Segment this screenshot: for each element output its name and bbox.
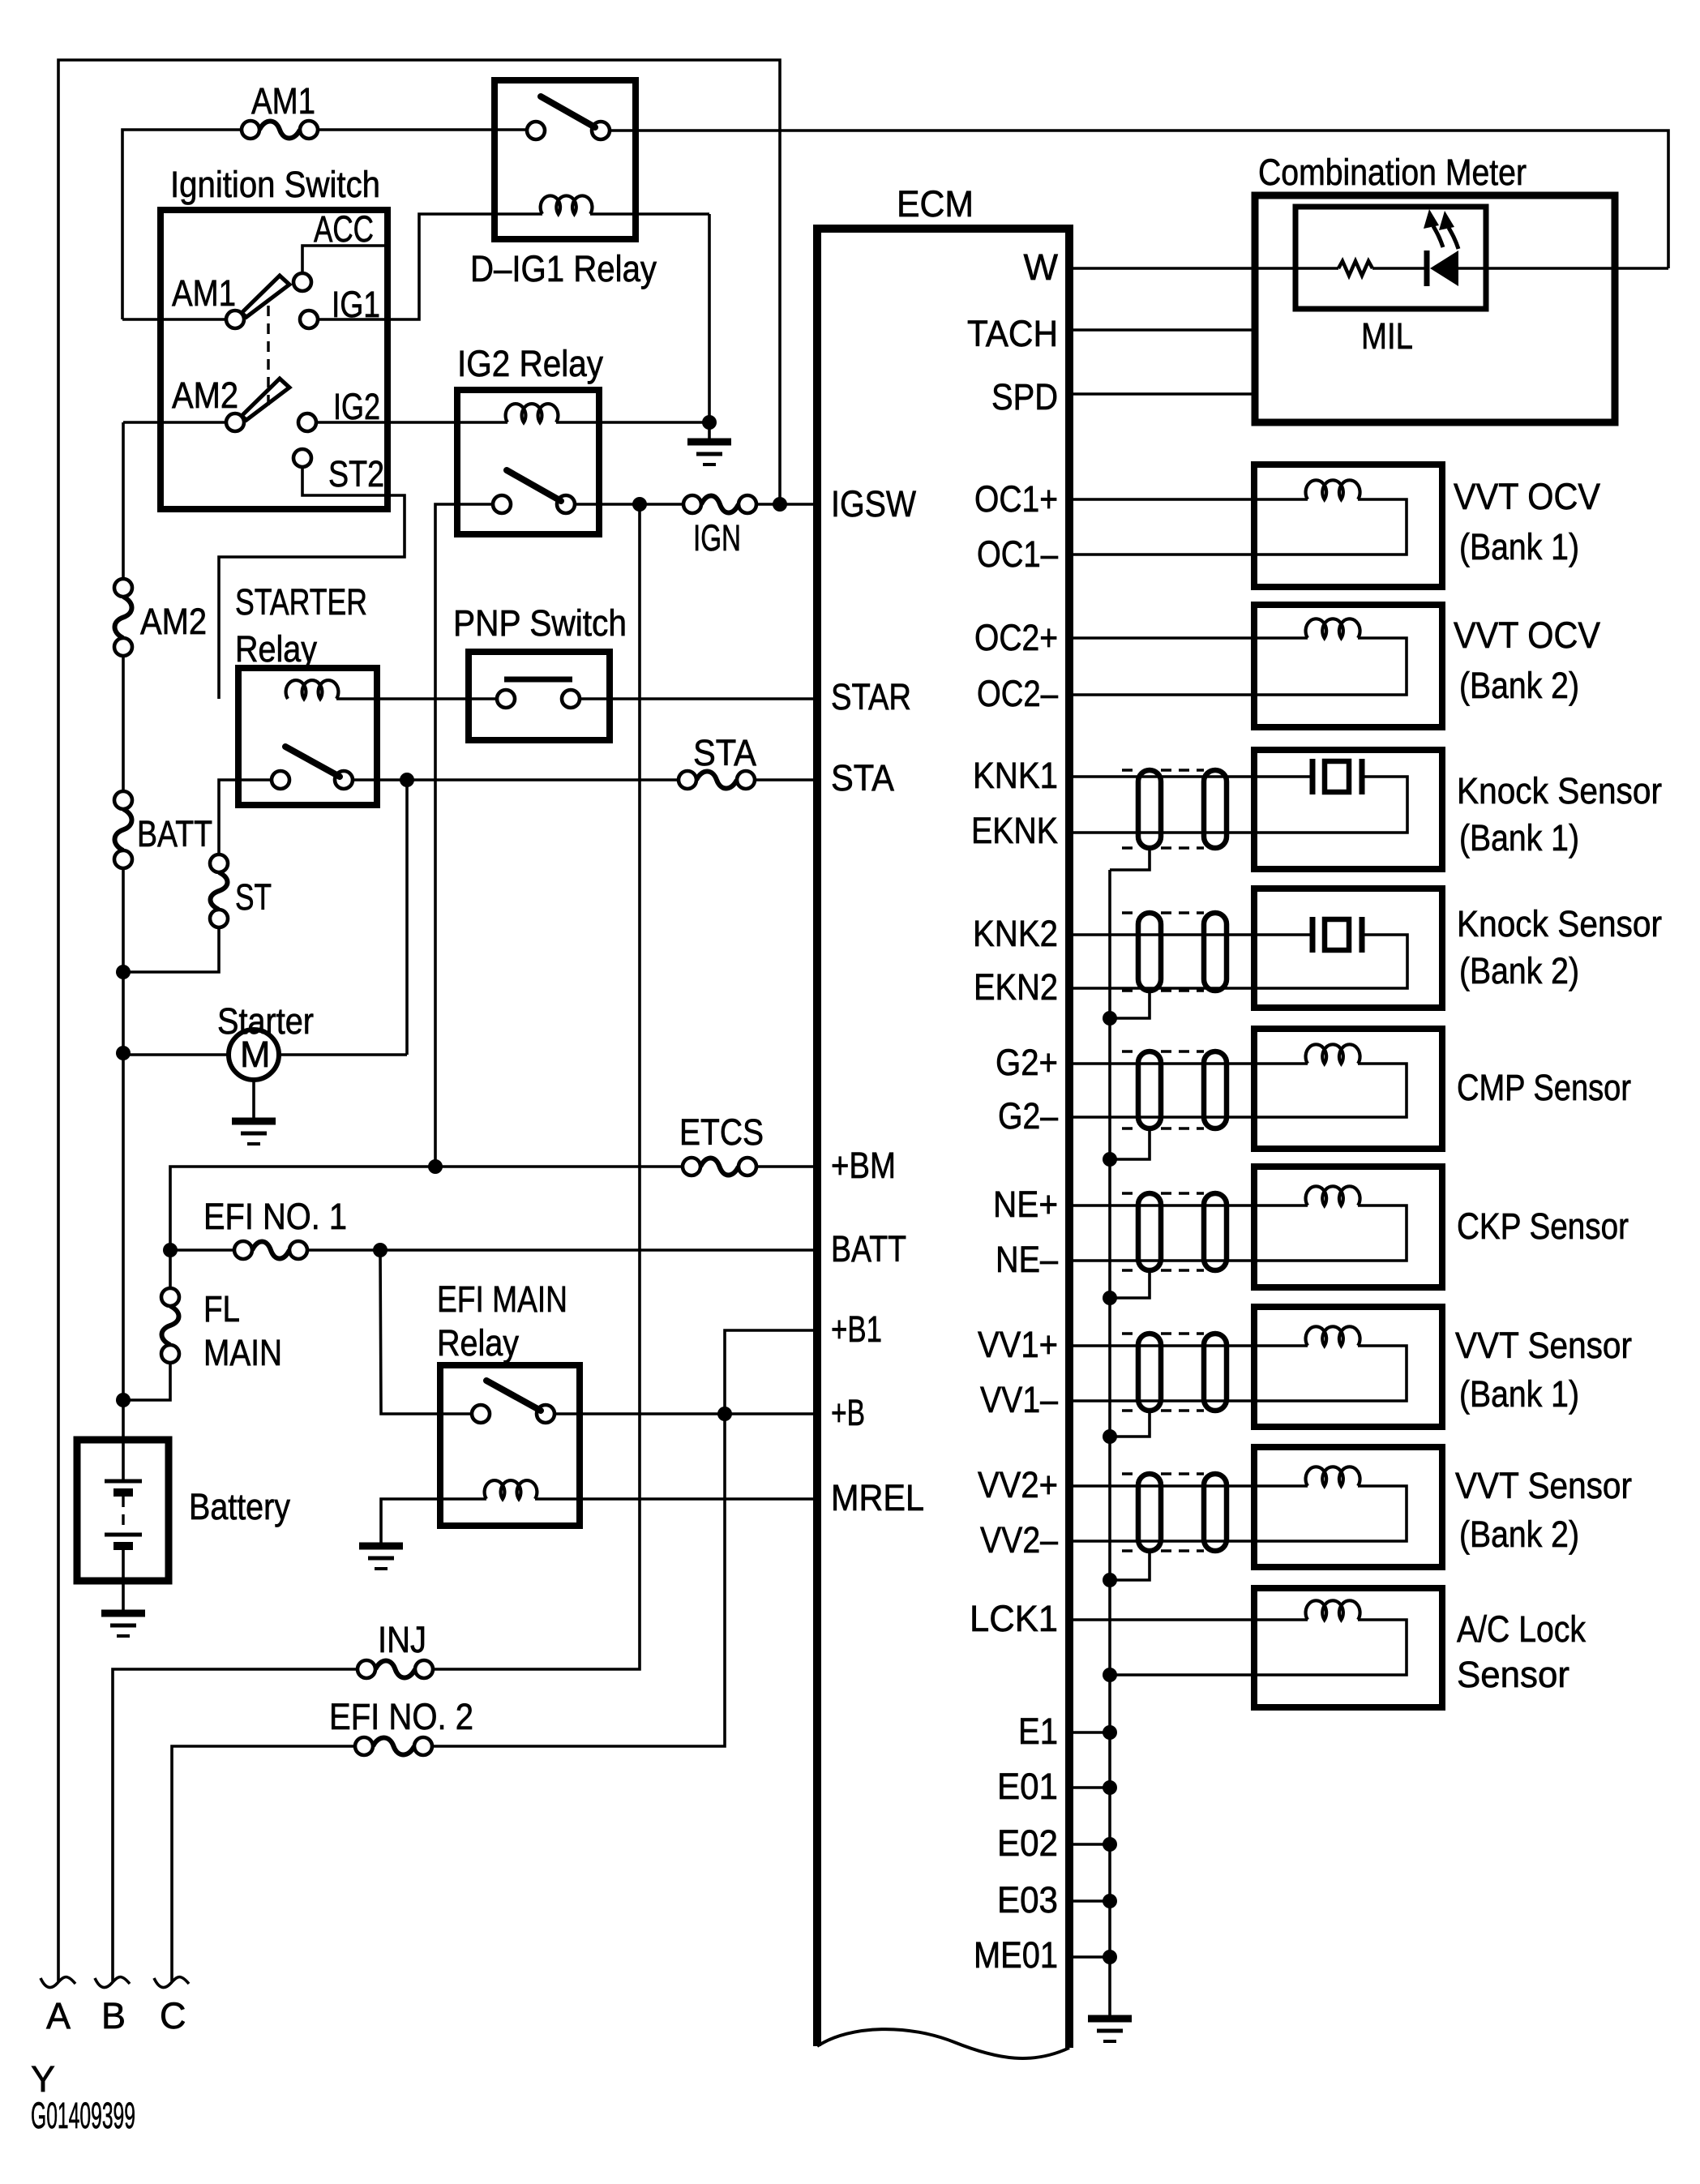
svg-text:IGSW: IGSW: [831, 483, 916, 525]
wire CMP Sensor internal return: [1069, 1064, 1407, 1117]
label (Bank 2): [1459, 665, 1579, 706]
battery cells: [105, 1442, 142, 1612]
wire D-IG1 coil to ground riser: [590, 212, 709, 216]
box VVT OCV Bank1: [1254, 465, 1442, 587]
junction shield drain VV2: [1103, 1573, 1117, 1587]
pin label NE–: [996, 1239, 1058, 1280]
terminal IG2: [298, 413, 316, 431]
svg-text:OC1–: OC1–: [977, 533, 1058, 575]
wire AM2 terminal feed: [123, 421, 226, 424]
svg-text:KNK1: KNK1: [973, 755, 1058, 796]
pin label MREL: [831, 1477, 924, 1518]
pin label E03: [997, 1879, 1058, 1921]
wire shield drain NE: [1110, 1270, 1150, 1298]
label MIL: [1361, 315, 1413, 357]
pin label EKN2: [974, 966, 1058, 1008]
wire W to MIL resistor: [1069, 267, 1338, 270]
wire ME01 to ground bus: [1069, 1955, 1110, 1959]
svg-text:Y: Y: [31, 2058, 55, 2100]
svg-text:BATT: BATT: [831, 1228, 906, 1270]
pin label +B: [831, 1392, 865, 1433]
wire VVT Sensor Bank2 internal return: [1069, 1486, 1407, 1541]
svg-text:EKN2: EKN2: [974, 966, 1058, 1008]
wire VVT OCV Bank2 + lead: [1069, 636, 1308, 640]
wire Knock Sensor Bank1 return: [1069, 777, 1407, 833]
label Knock Sensor: [1457, 770, 1662, 812]
wire EFI NO.1 left stub: [170, 1248, 234, 1252]
svg-text:Relay: Relay: [235, 628, 317, 670]
svg-text:OC2–: OC2–: [977, 673, 1058, 714]
wire shield drain KNK2: [1110, 991, 1150, 1018]
ECM box: [817, 229, 1069, 2058]
svg-text:(Bank 1): (Bank 1): [1459, 1373, 1579, 1415]
wire STARTER contact left to ST fuse: [219, 780, 272, 854]
break symbol net C: [154, 1977, 189, 1988]
pin label LCK1: [970, 1598, 1058, 1639]
coil VVT OCV Bank1: [1306, 480, 1360, 499]
pin label STAR: [831, 676, 911, 717]
svg-text:KNK2: KNK2: [973, 913, 1058, 954]
label AM2 fuse: [140, 601, 207, 642]
svg-text:MAIN: MAIN: [203, 1332, 282, 1373]
junction E02: [1103, 1837, 1117, 1852]
label ECM: [897, 183, 974, 225]
label ACC: [314, 208, 374, 250]
coil CMP Sensor: [1306, 1044, 1360, 1064]
box Knock Sensor Bank2: [1254, 889, 1442, 1008]
pin label KNK1: [973, 755, 1058, 796]
crystal Knock Sensor Bank2: [1312, 917, 1362, 953]
terminal AM2: [226, 413, 244, 431]
svg-text:NE–: NE–: [996, 1239, 1058, 1280]
svg-text:ECM: ECM: [897, 183, 974, 225]
pin label STA: [831, 757, 894, 799]
label VVT Sensor: [1455, 1465, 1632, 1506]
svg-text:EFI NO. 1: EFI NO. 1: [203, 1196, 347, 1237]
label IG2: [333, 386, 380, 427]
svg-text:D–IG1 Relay: D–IG1 Relay: [470, 248, 657, 289]
label EFI NO. 1: [203, 1196, 347, 1237]
pin label BATT: [831, 1228, 906, 1270]
ground starter motor: [232, 1121, 276, 1144]
box VVT OCV Bank2: [1254, 605, 1442, 727]
pin label VV1–: [980, 1379, 1058, 1420]
box CKP Sensor: [1254, 1167, 1442, 1287]
label ST2: [328, 453, 384, 495]
svg-text:OC1+: OC1+: [974, 478, 1058, 520]
svg-text:+B1: +B1: [831, 1308, 882, 1350]
terminal AM1: [226, 310, 244, 328]
wire D-IG1 contact to MIL return (top right run): [610, 131, 1668, 268]
pin label W: [1024, 246, 1059, 288]
label BATT fuse: [137, 813, 212, 854]
fuse ETCS: [683, 1158, 756, 1176]
resistor MIL: [1338, 261, 1372, 276]
wire PNP switch to ECM STAR: [580, 697, 817, 700]
relay IG2 contact: [493, 470, 575, 513]
break symbol net A bottom: [41, 1977, 75, 1988]
wire +BM line with corner: [170, 1167, 683, 1250]
coil VVT Sensor Bank2: [1306, 1467, 1360, 1486]
label VVT Sensor: [1455, 1325, 1632, 1366]
svg-text:EKNK: EKNK: [971, 810, 1058, 851]
pin label SPD: [991, 376, 1058, 418]
wire IG2 coil to ground junction: [556, 421, 709, 424]
svg-text:BATT: BATT: [137, 813, 212, 854]
svg-text:W: W: [1024, 246, 1059, 288]
relay IG2 coil: [506, 404, 559, 422]
label ST fuse: [235, 876, 272, 918]
wire E01 to ground bus: [1069, 1786, 1110, 1789]
wire AM1 fuse feed from left riser: [122, 130, 242, 319]
wire TACH to meter: [1069, 328, 1255, 332]
svg-text:VV2–: VV2–: [980, 1519, 1058, 1561]
dashed gang tie between blades: [267, 306, 269, 412]
fuse ST: [210, 854, 228, 927]
label Y: [31, 2058, 55, 2100]
svg-text:Relay: Relay: [437, 1322, 519, 1364]
svg-text:VVT OCV: VVT OCV: [1454, 476, 1600, 517]
wire STA branch down to starter motor: [405, 780, 409, 1055]
terminal ST2: [293, 449, 311, 467]
svg-text:VVT Sensor: VVT Sensor: [1455, 1465, 1632, 1506]
svg-text:Knock Sensor: Knock Sensor: [1457, 903, 1662, 944]
label STA fuse: [693, 732, 756, 773]
junction IGN right / net A drop: [773, 497, 787, 512]
wire A/C Lock Sensor + lead: [1069, 1618, 1308, 1621]
svg-text:AM2: AM2: [172, 375, 238, 416]
wire IGN drop to INJ line (net B): [433, 504, 640, 1669]
label Combination Meter: [1258, 152, 1527, 193]
label IG2 Relay: [457, 343, 603, 384]
junction EFI NO.1 left: [163, 1243, 178, 1257]
wire VVT OCV Bank1 + lead: [1069, 498, 1308, 501]
wire IG2 terminal to IG2 relay coil: [316, 421, 507, 424]
relay EFI MAIN contact: [472, 1381, 555, 1423]
wire A/C Lock Sensor internal return: [1110, 1620, 1407, 1675]
pin label KNK2: [973, 913, 1058, 954]
svg-text:VVT OCV: VVT OCV: [1454, 615, 1600, 656]
junction starter feed: [116, 1046, 131, 1060]
pin label G2+: [996, 1042, 1058, 1083]
label (Bank 1): [1459, 526, 1579, 567]
label G01409399: [31, 2095, 135, 2136]
wire CMP Sensor + lead: [1069, 1062, 1308, 1065]
svg-text:(Bank 2): (Bank 2): [1459, 1514, 1579, 1555]
svg-text:EFI MAIN: EFI MAIN: [437, 1278, 567, 1320]
svg-text:MREL: MREL: [831, 1477, 924, 1518]
pin label OC1+: [974, 478, 1058, 520]
svg-text:(Bank 2): (Bank 2): [1459, 950, 1579, 991]
svg-text:Knock Sensor: Knock Sensor: [1457, 770, 1662, 812]
junction shield drain KNK2: [1103, 1011, 1117, 1026]
svg-text:AM1: AM1: [172, 272, 236, 314]
wire starter motor ground stub: [252, 1080, 255, 1121]
junction shield drain VV1: [1103, 1429, 1117, 1444]
relay STARTER box: [238, 668, 377, 805]
svg-text:ME01: ME01: [974, 1934, 1058, 1976]
switch blade AM1: [242, 276, 289, 317]
PNP switch contacts and bar: [497, 679, 580, 708]
wire ST fuse to left riser: [123, 927, 219, 972]
svg-text:+B: +B: [831, 1392, 865, 1433]
label ETCS: [679, 1111, 764, 1153]
node label B: [101, 1995, 126, 2036]
relay D-IG1 contact: [527, 96, 610, 139]
coil VVT OCV Bank2: [1306, 619, 1360, 638]
box A/C Lock Sensor: [1254, 1588, 1442, 1707]
pin label VV2–: [980, 1519, 1058, 1561]
label VVT OCV: [1454, 615, 1600, 656]
svg-text:LCK1: LCK1: [970, 1598, 1058, 1639]
shield capsule pair VV1: [1122, 1334, 1227, 1411]
coil A/C Lock Sensor: [1306, 1600, 1360, 1620]
wire shield drain VV1: [1110, 1411, 1150, 1437]
svg-text:M: M: [240, 1034, 271, 1075]
wire VVT OCV Bank2 internal return: [1069, 638, 1407, 695]
wire SPD to meter: [1069, 392, 1255, 396]
wire IG1 terminal to D-IG1 coil: [318, 214, 542, 319]
relay STARTER coil: [286, 680, 339, 699]
svg-text:VV2+: VV2+: [978, 1464, 1058, 1505]
pin label OC2+: [974, 617, 1058, 658]
svg-text:ST: ST: [235, 876, 272, 918]
wire ETCS fuse to ECM +BM: [756, 1165, 817, 1168]
label (Bank 1): [1459, 817, 1579, 859]
pin label IGSW: [831, 483, 916, 525]
LED emission arrows: [1424, 209, 1458, 249]
junction E01: [1103, 1780, 1117, 1795]
shield capsule pair NE: [1122, 1193, 1227, 1270]
svg-text:NE+: NE+: [993, 1184, 1058, 1225]
svg-text:IGN: IGN: [693, 517, 741, 559]
pin label VV2+: [978, 1464, 1058, 1505]
label CMP Sensor: [1457, 1067, 1631, 1108]
label VVT OCV: [1454, 476, 1600, 517]
svg-text:ACC: ACC: [314, 208, 374, 250]
shield capsule pair G2: [1122, 1051, 1227, 1128]
svg-text:Ignition Switch: Ignition Switch: [170, 164, 380, 205]
svg-text:G01409399: G01409399: [31, 2095, 135, 2136]
svg-text:STARTER: STARTER: [235, 581, 367, 623]
wire FL MAIN upper stub: [169, 1250, 172, 1288]
fuse IGN: [683, 495, 756, 513]
svg-text:STA: STA: [693, 732, 756, 773]
wire AM1 fuse to D-IG1 relay contact: [318, 128, 527, 131]
junction E1: [1103, 1725, 1117, 1740]
ground battery: [101, 1613, 145, 1636]
PNP switch box: [469, 652, 610, 740]
fuse INJ: [358, 1660, 433, 1678]
svg-text:C: C: [160, 1995, 186, 2036]
wire EFI NO.2 fuse to net C riser: [172, 1746, 355, 1981]
label Knock Sensor: [1457, 903, 1662, 944]
wire net A: left border vertical and top run: [58, 60, 780, 1981]
MIL box: [1295, 207, 1486, 309]
label (Bank 2): [1459, 1514, 1579, 1555]
pin label G2–: [998, 1095, 1058, 1137]
ground EFI MAIN coil: [359, 1546, 403, 1569]
svg-text:AM2: AM2: [140, 601, 207, 642]
svg-text:MIL: MIL: [1361, 315, 1413, 357]
svg-text:Sensor: Sensor: [1457, 1654, 1569, 1695]
svg-text:TACH: TACH: [967, 313, 1058, 354]
battery box: [77, 1440, 169, 1581]
switch blade AM2: [242, 379, 289, 420]
junction STA branch: [400, 773, 414, 787]
svg-text:A: A: [46, 1995, 71, 2036]
wire VVT Sensor Bank1 + lead: [1069, 1344, 1308, 1347]
junction IGN left: [632, 497, 647, 512]
wire E02 to ground bus: [1069, 1843, 1110, 1846]
ground ECM bus: [1088, 2019, 1132, 2041]
svg-text:(Bank 1): (Bank 1): [1459, 817, 1579, 859]
junction ME01: [1103, 1950, 1117, 1964]
label IG1: [332, 284, 380, 325]
wire riser to starter motor: [123, 1053, 229, 1056]
wire E1 to ground bus: [1069, 1731, 1110, 1734]
pin label E01: [997, 1766, 1058, 1807]
node label A: [46, 1995, 71, 2036]
pin label OC2–: [977, 673, 1058, 714]
wire E03 to ground bus: [1069, 1899, 1110, 1903]
label AM1 terminal: [172, 272, 236, 314]
wire LED to right return: [1458, 267, 1668, 270]
fuse EFI NO.1: [234, 1241, 307, 1259]
svg-text:CMP Sensor: CMP Sensor: [1457, 1067, 1631, 1108]
wire EFI MAIN contact feed riser: [380, 1250, 472, 1414]
fuse AM2: [114, 579, 132, 656]
shield capsule pair KNK2/EKN2: [1122, 913, 1227, 991]
fuse STA: [679, 771, 755, 789]
svg-text:E01: E01: [997, 1766, 1058, 1807]
label Battery: [189, 1486, 290, 1527]
combination meter box: [1255, 195, 1615, 422]
svg-text:ETCS: ETCS: [679, 1111, 764, 1153]
relay EFI MAIN box: [440, 1365, 580, 1526]
wire IG2 contact left to +BM riser: [435, 504, 493, 1167]
coil VVT Sensor Bank1: [1306, 1326, 1360, 1346]
svg-text:IG2: IG2: [333, 386, 380, 427]
junction ST to riser: [116, 965, 131, 979]
svg-text:B: B: [101, 1995, 126, 2036]
wire resistor to LED: [1372, 267, 1424, 270]
label D-IG1 Relay: [470, 248, 657, 289]
wire shield drain G2: [1110, 1128, 1150, 1159]
wire STA fuse to ECM STA: [755, 778, 817, 782]
wire shield drain VV2: [1110, 1551, 1150, 1580]
svg-text:(Bank 2): (Bank 2): [1459, 665, 1579, 706]
pin label VV1+: [978, 1324, 1058, 1365]
label (Bank 2): [1459, 950, 1579, 991]
terminal ACC: [293, 273, 311, 291]
label AM2 terminal: [172, 375, 238, 416]
wire ground bus vertical: [1108, 870, 1111, 2017]
wire Knock Sensor Bank1 + lead: [1069, 775, 1311, 778]
svg-text:VVT Sensor: VVT Sensor: [1455, 1325, 1632, 1366]
svg-text:CKP Sensor: CKP Sensor: [1457, 1205, 1629, 1247]
svg-text:A/C Lock: A/C Lock: [1457, 1608, 1586, 1650]
pin label EKNK: [971, 810, 1058, 851]
junction +B / +B1 riser: [717, 1407, 732, 1421]
svg-text:SPD: SPD: [991, 376, 1058, 418]
node label C: [160, 1995, 186, 2036]
wire Knock Sensor Bank2 return: [1069, 935, 1407, 988]
box VVT Sensor Bank1: [1254, 1307, 1442, 1427]
break symbol net B: [95, 1977, 130, 1988]
svg-text:AM1: AM1: [251, 80, 315, 122]
box CMP Sensor: [1254, 1029, 1442, 1149]
svg-text:Battery: Battery: [189, 1486, 290, 1527]
wire EFI MAIN coil to ground: [381, 1499, 486, 1544]
junction shield drain G2: [1103, 1152, 1117, 1167]
svg-text:E03: E03: [997, 1879, 1058, 1921]
svg-text:G2+: G2+: [996, 1042, 1058, 1083]
fuse FL MAIN: [161, 1288, 179, 1363]
wire AM1 terminal feed: [122, 318, 226, 321]
wire STARTER coil to PNP switch: [336, 697, 497, 700]
svg-text:IG1: IG1: [332, 284, 380, 325]
junction shield drain NE: [1103, 1291, 1117, 1305]
shield capsule pair KNK1/EKNK: [1122, 770, 1227, 848]
wire IG2 contact right to IGN fuse: [575, 503, 683, 506]
relay IG2 box: [457, 390, 599, 534]
label A/C Lock: [1457, 1608, 1586, 1650]
junction E03: [1103, 1894, 1117, 1908]
label CKP Sensor: [1457, 1205, 1629, 1247]
label Ignition Switch: [170, 164, 380, 205]
wire CKP Sensor + lead: [1069, 1204, 1308, 1207]
wire Knock Sensor Bank2 + lead: [1069, 933, 1311, 936]
svg-text:Combination Meter: Combination Meter: [1258, 152, 1527, 193]
svg-text:EFI NO. 2: EFI NO. 2: [329, 1696, 473, 1737]
wire AM2 riser upper: [122, 422, 125, 579]
starter motor M: [229, 1030, 279, 1080]
svg-text:(Bank 1): (Bank 1): [1459, 526, 1579, 567]
svg-text:INJ: INJ: [378, 1619, 426, 1660]
wire starter motor right: [279, 1053, 407, 1056]
svg-text:PNP Switch: PNP Switch: [453, 602, 627, 644]
wire CKP Sensor internal return: [1069, 1205, 1407, 1261]
pin label TACH: [967, 313, 1058, 354]
wire EFI MAIN coil to ECM MREL: [535, 1497, 817, 1501]
wire ACC terminal stub: [302, 246, 388, 273]
fuse BATT: [114, 791, 132, 868]
svg-text:IG2 Relay: IG2 Relay: [457, 343, 603, 384]
svg-text:ST2: ST2: [328, 453, 384, 495]
label EFI MAIN Relay: [437, 1278, 567, 1364]
svg-text:FL: FL: [203, 1288, 240, 1330]
wire STARTER contact right: [353, 778, 679, 782]
wire VVT Sensor Bank1 internal return: [1069, 1346, 1407, 1401]
svg-text:E02: E02: [997, 1822, 1058, 1864]
svg-text:STA: STA: [831, 757, 894, 799]
junction A/C lock return: [1103, 1668, 1117, 1682]
ignition switch box: [161, 210, 388, 509]
label IGN: [693, 517, 741, 559]
label Starter: [217, 1000, 314, 1042]
label FL MAIN: [203, 1288, 282, 1373]
wire EFI NO.1 fuse to ECM BATT: [307, 1248, 817, 1252]
fuse EFI NO.2: [355, 1737, 432, 1755]
svg-text:VV1+: VV1+: [978, 1324, 1058, 1365]
svg-text:OC2+: OC2+: [974, 617, 1058, 658]
wire +B1 riser to EFI NO.2 line (net C): [433, 1330, 817, 1746]
wire VVT OCV Bank1 internal return: [1069, 499, 1407, 555]
label PNP Switch: [453, 602, 627, 644]
pin label E02: [997, 1822, 1058, 1864]
box VVT Sensor Bank2: [1254, 1447, 1442, 1567]
